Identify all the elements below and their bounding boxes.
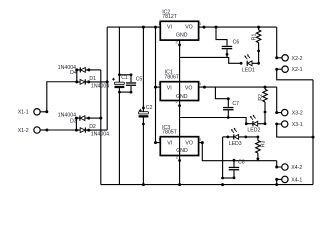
svg-text:1N4004: 1N4004 <box>91 131 109 137</box>
capacitor C2 plates (electrolytic) <box>139 112 149 118</box>
node C1 top pin <box>118 73 121 76</box>
node IC3 GND pin <box>178 159 181 162</box>
node X4-1 stub <box>275 178 278 181</box>
svg-text:R1: R1 <box>252 33 258 40</box>
svg-text:1: 1 <box>158 82 160 86</box>
svg-text:7812T: 7812T <box>162 14 178 20</box>
svg-text:VO: VO <box>185 86 193 92</box>
wire X2-2 drop <box>277 27 282 58</box>
wire D1 cathode to positive rail <box>89 81 107 83</box>
wire bridge upper-left vertical <box>76 70 78 82</box>
svg-text:X1-2: X1-2 <box>18 128 29 134</box>
wire right ground vertical <box>312 80 314 185</box>
node IC1 GND pin <box>178 104 181 107</box>
svg-text:LED3: LED3 <box>229 141 242 147</box>
node IC1 VI branch junction <box>154 86 157 89</box>
wire IC1 VO output <box>199 86 277 88</box>
svg-text:7805T: 7805T <box>162 129 178 135</box>
connector X4-1 <box>282 176 288 182</box>
wire C7 jog <box>215 87 228 107</box>
wire GND net vertical through regulators x=179.6 <box>179 40 181 185</box>
svg-text:D2: D2 <box>89 124 96 130</box>
capacitor C8 <box>229 159 240 179</box>
capacitor C6 <box>222 46 233 58</box>
wire D3 anode to negative rail <box>89 117 101 119</box>
connector X4-2 <box>282 164 288 170</box>
svg-text:D4: D4 <box>70 70 77 76</box>
connector X3-2 <box>282 109 288 115</box>
connector X1-2 <box>34 127 40 133</box>
wire D4 anode to negative rail <box>89 69 101 71</box>
node IC3 VI corner <box>154 141 157 144</box>
svg-text:3: 3 <box>199 22 201 26</box>
wire X1-1 up and right to D1 anode <box>47 82 77 112</box>
svg-text:X4-2: X4-2 <box>291 165 302 171</box>
svg-text:C1: C1 <box>121 75 128 81</box>
wire X4-2 corner <box>277 161 283 167</box>
diode D3 <box>75 116 90 121</box>
svg-text:1: 1 <box>158 138 160 142</box>
svg-text:X3-1: X3-1 <box>292 122 303 128</box>
wire IC2 GND to LED1 cathode <box>180 57 242 63</box>
svg-text:7806T: 7806T <box>164 75 180 81</box>
LED LED2 <box>245 115 266 127</box>
wire IC2 VO output <box>199 26 277 28</box>
wire IC3 VO down to +5V rail <box>199 143 277 161</box>
connector X2-2 <box>282 55 288 61</box>
svg-text:LED2: LED2 <box>247 128 260 134</box>
resistor R3 <box>256 136 260 161</box>
wire positive rail vertical x=107 <box>106 27 108 130</box>
svg-text:R2: R2 <box>258 94 264 101</box>
node right ground junction <box>312 136 315 139</box>
capacitor C2 plus sign <box>139 109 142 112</box>
node IC3 VO pin <box>201 141 204 144</box>
node C1 bottom pin <box>118 91 121 94</box>
wire IC1 GND to LED2 cathode <box>180 118 247 124</box>
node X2-2 stub <box>275 56 278 59</box>
node LED3 drop at C8 link <box>221 177 224 180</box>
wire LED3 ground drop <box>222 137 224 178</box>
wire D2 cathode to positive rail corner <box>89 129 108 131</box>
svg-text:D3: D3 <box>70 118 77 124</box>
node X3-2 stub <box>275 111 278 114</box>
svg-text:GND: GND <box>176 148 188 154</box>
svg-text:C5: C5 <box>136 76 143 82</box>
svg-text:2: 2 <box>176 155 178 159</box>
svg-text:X4-1: X4-1 <box>291 177 302 183</box>
node X2-1 stub <box>275 68 278 71</box>
capacitor C1 vertical line from top rail <box>118 27 120 185</box>
node IC2 GND pin <box>178 44 181 47</box>
LED LED3 <box>223 128 258 140</box>
svg-text:C6: C6 <box>233 39 240 45</box>
connector X2-1 <box>282 66 288 72</box>
node C2 top pin <box>142 107 145 110</box>
op-amp IC2 box (regulator 7812T) <box>160 21 198 40</box>
wire VI feed rail x=155.5 <box>156 27 161 143</box>
wire X4-1 stub <box>277 178 282 180</box>
svg-text:3: 3 <box>199 138 201 142</box>
wire X1-2 to D2 anode <box>47 129 77 131</box>
capacitor C1 plates (electrolytic) <box>115 82 125 88</box>
wire X2-1 to right ground vertical <box>277 69 313 80</box>
resistor R1 <box>256 26 260 64</box>
svg-text:X1-1: X1-1 <box>18 110 29 116</box>
wire C1-C5 bottom link <box>119 91 131 93</box>
svg-text:C2: C2 <box>146 105 153 111</box>
node IC1 VO pin <box>203 86 206 89</box>
wire X1-2 stub <box>40 129 47 131</box>
svg-text:X2-2: X2-2 <box>292 56 303 62</box>
wire negative rail vertical x=100.7 <box>100 70 102 185</box>
svg-text:2: 2 <box>176 100 178 104</box>
node feed rail top junction <box>154 26 157 29</box>
node X1-2 stub junction <box>45 129 48 132</box>
svg-text:VO: VO <box>185 140 193 146</box>
op-amp IC1 box (regulator 7806T) <box>160 82 198 101</box>
svg-text:1: 1 <box>158 22 160 26</box>
node X4-1 ground rail junction <box>275 183 278 186</box>
node X1-1 stub junction <box>45 110 48 113</box>
node C2 bottom pin <box>142 123 145 126</box>
node IC2 VO pin <box>203 26 206 29</box>
LED LED1 <box>240 54 260 66</box>
node C2 ground rail junction <box>142 183 145 186</box>
node C6 branch junction <box>215 26 218 29</box>
resistor R2 <box>263 86 267 124</box>
wire X1-1 stub <box>40 111 47 113</box>
svg-text:VI: VI <box>167 24 172 30</box>
node D1 positive rail junction <box>106 80 109 83</box>
node GND rail junction <box>178 183 181 186</box>
wire X2-1 stub <box>277 68 282 70</box>
svg-text:VO: VO <box>185 24 193 30</box>
wire C1-C5 top link <box>119 74 131 76</box>
wire X3-1 to right ground vertical <box>277 124 313 137</box>
wire bottom ground rail <box>101 184 313 186</box>
node LED3 drop at ground rail <box>221 183 224 186</box>
svg-text:X3-2: X3-2 <box>292 111 303 117</box>
capacitor C5 <box>126 73 136 93</box>
svg-text:LED1: LED1 <box>242 67 255 73</box>
svg-text:1N4004: 1N4004 <box>91 83 109 89</box>
svg-text:R3: R3 <box>260 140 266 147</box>
capacitor C7 <box>223 107 234 119</box>
diode D4 <box>75 67 90 72</box>
capacitor C2 vertical line from top rail <box>142 27 144 185</box>
wire X3-2 drop <box>277 87 282 113</box>
wire X3-1 stub <box>277 123 282 125</box>
diode D1 <box>75 79 90 84</box>
connector X1-1 <box>34 109 40 115</box>
wire IC1 VI branch <box>156 86 161 88</box>
svg-text:C8: C8 <box>238 160 245 166</box>
wire GND vertical inside IC3 <box>179 137 181 156</box>
wire top rail VIN to IC2 VI <box>107 26 160 28</box>
node X3-1 stub <box>275 123 278 126</box>
wire C8 bottom link to LED3 drop <box>223 177 234 179</box>
wire GND vertical inside IC1 <box>179 82 181 101</box>
node X4-2 stub <box>275 166 278 169</box>
wire bridge lower-left vertical <box>75 118 77 130</box>
node C7 top corner pin <box>227 97 230 100</box>
svg-text:X2-1: X2-1 <box>292 67 303 73</box>
node C2 top rail junction <box>142 26 145 29</box>
diode D2 <box>75 128 90 133</box>
capacitor C1 plus sign <box>112 78 115 81</box>
svg-text:2: 2 <box>176 41 178 45</box>
wire X4-1 to ground rail <box>276 179 278 184</box>
svg-text:VI: VI <box>167 86 172 92</box>
wire C6 jog from output rail <box>216 27 227 46</box>
svg-text:3: 3 <box>199 82 201 86</box>
svg-text:C7: C7 <box>232 101 239 107</box>
svg-text:VI: VI <box>167 140 172 146</box>
svg-text:GND: GND <box>176 33 188 39</box>
svg-text:GND: GND <box>176 94 188 100</box>
svg-text:D1: D1 <box>89 76 96 82</box>
connector X3-1 <box>282 121 288 127</box>
node D3 negative rail junction <box>99 117 102 120</box>
op-amp IC3 box (regulator 7805T) <box>160 137 198 156</box>
